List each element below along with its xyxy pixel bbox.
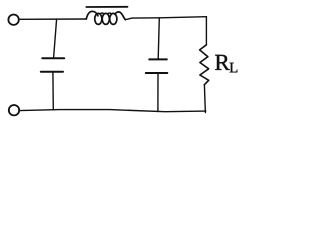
wire top-left (J1 to inductor): [19, 18, 86, 20]
inductor L1 core bar: [86, 6, 127, 8]
terminal J2 (bottom-left input): [9, 105, 19, 115]
capacitor C2: [149, 58, 167, 60]
capacitor C2 top lead: [158, 18, 159, 59]
wire top-right (inductor to corner): [125, 17, 206, 20]
capacitor C1 top lead: [54, 19, 57, 57]
label RL : letter R (Liberation Serif outline): [215, 55, 230, 70]
inductor L1 (coil): [86, 11, 98, 19]
resistor RL bottom lead: [204, 85, 205, 113]
capacitor C1: [42, 57, 64, 59]
resistor RL top lead: [205, 17, 207, 45]
wire bottom: [19, 110, 205, 112]
resistor RL: [200, 45, 209, 85]
terminal J1 (top-left input): [8, 15, 18, 25]
label RL : subscript L (Liberation Serif outline): [230, 63, 238, 73]
capacitor C1 bottom lead: [52, 72, 54, 110]
capacitor C2 bottom lead: [157, 73, 159, 111]
